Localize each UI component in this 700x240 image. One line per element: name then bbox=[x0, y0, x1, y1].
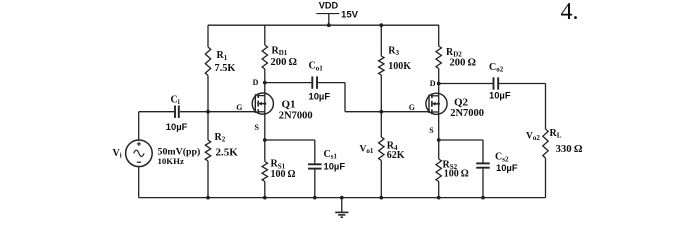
svg-text:S: S bbox=[429, 126, 434, 135]
node Rs1 ground junction bbox=[263, 196, 267, 200]
wire Cs1 top lead bbox=[314, 140, 316, 163]
svg-text:15V: 15V bbox=[341, 9, 359, 20]
wire RD1 top lead bbox=[264, 25, 266, 45]
svg-text:10µF: 10µF bbox=[489, 90, 511, 101]
svg-text:Co2: Co2 bbox=[489, 62, 504, 74]
resistor R3 bbox=[379, 56, 384, 75]
resistor RD1 bbox=[262, 45, 267, 69]
resistor R4 bbox=[379, 137, 384, 161]
wire D2 to Co2 bbox=[439, 83, 493, 85]
svg-text:10KHz: 10KHz bbox=[158, 156, 184, 166]
svg-text:Ci: Ci bbox=[171, 94, 180, 106]
svg-text:Vo1: Vo1 bbox=[360, 145, 374, 156]
svg-text:VDD: VDD bbox=[319, 1, 339, 11]
svg-text:100 Ω: 100 Ω bbox=[444, 169, 469, 180]
wire interstage corner down bbox=[344, 83, 346, 112]
wire gate node to R2 bbox=[207, 112, 209, 140]
svg-text:200 Ω: 200 Ω bbox=[271, 57, 298, 68]
svg-text:D: D bbox=[253, 78, 259, 87]
svg-text:Cs1: Cs1 bbox=[324, 149, 338, 161]
svg-text:RL: RL bbox=[550, 128, 562, 140]
wire Cs1 bottom lead bbox=[314, 170, 316, 198]
wire Rs1 bottom lead bbox=[264, 182, 266, 198]
wire Q1 drain-source vertical bbox=[264, 83, 266, 140]
svg-text:RD1: RD1 bbox=[272, 45, 288, 57]
svg-text:2N7000: 2N7000 bbox=[279, 111, 313, 122]
wire to Q2 gate bbox=[345, 111, 429, 113]
wire Rs2 bottom lead bbox=[438, 182, 440, 198]
wire S1 to Cs1 bbox=[265, 139, 315, 141]
svg-text:100K: 100K bbox=[388, 61, 411, 72]
wire input to Ci bbox=[139, 111, 174, 113]
wire Vi top lead bbox=[138, 112, 140, 140]
svg-text:10µF: 10µF bbox=[166, 121, 188, 132]
power VDD supply symbol bbox=[316, 14, 339, 28]
wire RD1 to drain D1 bbox=[264, 69, 266, 83]
wire Cs2 top lead bbox=[482, 140, 484, 163]
wire S2 to Cs2 bbox=[439, 139, 483, 141]
resistor RS2 bbox=[436, 159, 441, 182]
wire top supply rail bbox=[208, 24, 439, 26]
wire Co1 to corner bbox=[318, 82, 345, 84]
wire Co2 to output corner bbox=[499, 83, 545, 85]
wire Cs2 bottom lead bbox=[482, 169, 484, 198]
svg-text:Co1: Co1 bbox=[309, 61, 324, 73]
svg-text:S: S bbox=[255, 123, 260, 132]
svg-text:200 Ω: 200 Ω bbox=[450, 57, 477, 68]
wire output corner down bbox=[545, 84, 547, 130]
wire S1 to Rs1 bbox=[264, 140, 266, 162]
svg-text:R1: R1 bbox=[217, 50, 228, 62]
wire RD2 top lead bbox=[438, 25, 440, 46]
resistor R2 bbox=[205, 140, 210, 161]
capacitor Co1 bbox=[311, 76, 313, 88]
wire RL bottom lead bbox=[545, 158, 547, 198]
node R2 ground junction bbox=[206, 196, 210, 200]
node R4 ground junction bbox=[379, 196, 383, 200]
svg-text:R3: R3 bbox=[388, 46, 399, 58]
svg-text:D: D bbox=[430, 79, 436, 88]
capacitor CS2 bbox=[476, 162, 490, 164]
wire R4 bottom lead bbox=[380, 161, 382, 198]
node D2 drain junction bbox=[437, 82, 441, 86]
wire R2 bottom lead bbox=[207, 161, 209, 198]
resistor RL bbox=[543, 129, 548, 158]
capacitor Ci bbox=[174, 106, 176, 118]
svg-text:4.: 4. bbox=[561, 0, 579, 25]
source Vi sine generator bbox=[126, 140, 153, 167]
svg-text:62K: 62K bbox=[387, 150, 405, 161]
node S2 junction bbox=[437, 138, 441, 142]
wire RD2 to drain D2 bbox=[438, 69, 440, 84]
wire Vi bottom lead bbox=[138, 167, 140, 198]
svg-text:2N7000: 2N7000 bbox=[450, 108, 484, 119]
wire D1 to Co1 bbox=[265, 82, 312, 84]
node Vo1 bias junction bbox=[379, 110, 383, 114]
wire R1 top lead bbox=[207, 25, 209, 47]
wire S2 to Rs2 bbox=[438, 140, 440, 159]
svg-text:R2: R2 bbox=[215, 132, 226, 144]
node Cs2 ground junction bbox=[481, 196, 485, 200]
svg-text:2.5K: 2.5K bbox=[216, 146, 239, 158]
svg-text:Vo2: Vo2 bbox=[526, 131, 540, 142]
svg-text:10µF: 10µF bbox=[324, 161, 346, 172]
wire R3 top lead bbox=[380, 25, 382, 56]
transistor Q2 2N7000 bbox=[426, 93, 447, 114]
wire R1 to gate node bbox=[207, 76, 209, 112]
svg-text:G: G bbox=[236, 103, 242, 112]
wire R3 to gate2 node bbox=[380, 75, 382, 112]
svg-text:100 Ω: 100 Ω bbox=[271, 169, 296, 180]
resistor RD2 bbox=[436, 46, 441, 69]
capacitor Co2 bbox=[493, 77, 495, 89]
svg-text:G: G bbox=[409, 103, 415, 112]
svg-text:Q2: Q2 bbox=[454, 96, 469, 108]
svg-text:Vi: Vi bbox=[113, 148, 122, 160]
node Rs2 ground junction bbox=[437, 196, 441, 200]
capacitor CS1 bbox=[308, 163, 322, 165]
wire Ci to Q1 gate bbox=[180, 111, 256, 113]
wire bottom ground rail bbox=[139, 197, 546, 199]
node ground junction bbox=[340, 196, 344, 200]
ground symbol bbox=[335, 198, 348, 218]
transistor Q1 2N7000 bbox=[252, 93, 273, 114]
node R3 supply junction bbox=[379, 23, 383, 27]
svg-text:330 Ω: 330 Ω bbox=[556, 143, 583, 155]
resistor RS1 bbox=[262, 162, 267, 182]
svg-text:7.5K: 7.5K bbox=[215, 63, 236, 74]
node gate1 junction bbox=[206, 110, 210, 114]
svg-text:Q1: Q1 bbox=[282, 98, 296, 110]
svg-text:10µF: 10µF bbox=[309, 90, 331, 101]
node D1 drain junction bbox=[263, 81, 267, 85]
wire Q2 drain-source vertical bbox=[438, 84, 440, 141]
node S1 junction bbox=[263, 138, 267, 142]
svg-text:10µF: 10µF bbox=[496, 162, 518, 173]
resistor R1 bbox=[205, 47, 210, 76]
wire gate2 node to R4 bbox=[380, 112, 382, 137]
node Cs1 ground junction bbox=[313, 196, 317, 200]
